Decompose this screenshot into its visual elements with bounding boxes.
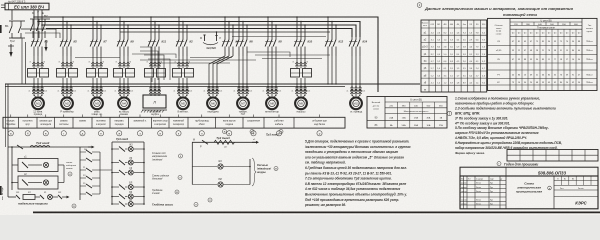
contactor К12 (327, 38, 329, 40)
wire: overload К11 to bus N (150, 78, 152, 84)
wire: mid link row (140, 59, 256, 61)
branch box 2 with lamp LK (18, 176, 58, 189)
wire: column К14 pass-through (351, 69, 353, 79)
circled ref p2 (208, 198, 212, 202)
selector contact row 1 (80, 151, 86, 153)
wire: overload К4 to bus N (208, 78, 210, 84)
wire: nested corner 4 (148, 59, 170, 80)
contactor К2 (178, 38, 180, 40)
wire: overload К12 to bus N (327, 78, 329, 84)
middle branch lamp К3 (112, 172, 119, 174)
wire: contactor К3 to overload (32, 62, 35, 66)
overload heater К7T (87, 69, 96, 78)
circled note 3 (447, 111, 451, 115)
wire: mid link row 4 (262, 58, 322, 60)
middle branch lamp Л3 (112, 162, 119, 164)
wire: mid tier B (232, 36, 326, 38)
wire: B1 bottom tie (12, 37, 21, 39)
wire: nested corner 2 (140, 51, 158, 80)
wire: contactor К12 to overload (327, 56, 329, 69)
wire: interlink d (247, 52, 290, 57)
title block name cell (505, 176, 507, 209)
bus N bottom second (5, 85, 345, 87)
wire: drops to contactor К6 (238, 17, 240, 38)
wire: contactor К11 to overload (149, 62, 152, 66)
middle branch lamp Ж3 (112, 148, 119, 150)
wire: interlink b (132, 54, 176, 58)
contactor К14 (351, 38, 353, 40)
wire: contactor К5 to overload (61, 62, 64, 66)
bus L2 (38, 22, 360, 38)
title block sheet row (554, 189, 598, 191)
electromagnet unit L (143, 95, 166, 108)
arrester arrow 2 (45, 40, 47, 50)
wire: control feed down left 2 (25, 42, 27, 84)
wire: overload К7 to bus N (92, 78, 94, 84)
wire: contactor К4 to overload (209, 56, 225, 69)
wire: overload К3 to bus N (33, 78, 35, 84)
wire: drops to contactor К14 (351, 37, 353, 38)
table: machine data left (421, 20, 487, 92)
contactor К3 (33, 38, 35, 40)
wire: box to switch B1 (11, 10, 13, 20)
wire: stepped feeder from switches (21, 29, 56, 38)
control rail top left ladder (8, 146, 92, 148)
right ladder top rail (192, 141, 257, 143)
plug connector column К14 (351, 84, 353, 96)
wire: interlink a (75, 57, 120, 59)
table: fuse ratings small (367, 97, 447, 129)
wire: contactor К2 to overload (177, 62, 180, 66)
margin text left edge (1, 186, 4, 200)
wire: boxes to collector (58, 164, 64, 166)
motor М2 (63, 95, 65, 98)
wire: contactor К7 to overload (91, 62, 94, 66)
circled note 2 (417, 3, 422, 8)
middle ladder right rail (143, 142, 145, 204)
motor М9 (297, 95, 299, 98)
bottom chain of lamps (8, 196, 16, 198)
title block outer (460, 176, 598, 209)
plug connector column К9 (119, 84, 121, 96)
wire: box drops M P E (33, 10, 35, 17)
wire: contactor К14 to overload (351, 56, 353, 69)
stamp note goden (497, 162, 501, 166)
right ladder left rail (191, 142, 193, 184)
selector ladder rail (79, 147, 81, 200)
overload heater К10T (291, 69, 300, 78)
switch B1 (9, 20, 25, 22)
bus L4 (46, 29, 352, 38)
motor М3 (93, 95, 95, 98)
wire: contactor К6 to overload (238, 56, 240, 69)
contactor К8 (267, 38, 269, 40)
selector contact row 2 (80, 159, 86, 161)
control rail left drop (7, 84, 9, 197)
feeder tap marks left of box (1, 4, 5, 6)
wire: column К4 pass-through (208, 69, 210, 79)
notes block center (304, 140, 411, 208)
wire: drops to contactor К11 (150, 17, 152, 38)
wire: drops to contactor К12 (327, 17, 329, 38)
wire: column К8 pass-through (267, 69, 269, 79)
wire: column К6 pass-through (238, 69, 240, 79)
brace and label raschnye shnury (252, 158, 256, 186)
contactor К10 (296, 38, 298, 40)
switch B2 (30, 18, 50, 20)
wire: overload К2 to bus N (178, 78, 180, 84)
wire: drops to contactor К9 (119, 17, 121, 38)
plug connector column К4 (208, 84, 210, 96)
wire: overload К8 to bus N (267, 78, 269, 84)
scan edge artifact left lower (0, 186, 2, 195)
wire: drops to contactor К10 (296, 17, 298, 38)
plug connector column К11 (150, 84, 152, 96)
plug connector column К10 (296, 84, 298, 96)
legend strip tick connectors (10, 115, 12, 118)
motor М7 (239, 95, 241, 98)
wire: drops to contactor К5 (62, 17, 64, 38)
overload heater К5T (57, 69, 66, 78)
contactor К11 (150, 38, 152, 40)
arrester arrow left (10, 44, 12, 56)
wire: nested corner 1 (140, 47, 152, 82)
wire: overload К5 to bus N (62, 78, 64, 84)
overload heater К11T (145, 69, 154, 78)
selector contact row 3 (80, 169, 86, 171)
contactor К4 (224, 38, 226, 40)
middle branch lamp Б3 (112, 196, 119, 198)
title block lit grid (553, 176, 555, 209)
wire: mid link row 2 (152, 62, 230, 64)
legend strip of function boxes (3, 117, 345, 128)
selector contact row 5 (80, 185, 86, 187)
plug connector column К7 (92, 84, 94, 96)
revision continuation table (507, 150, 598, 162)
overload heater К9T (114, 69, 123, 78)
wire: drops to contactor К4 (224, 17, 226, 38)
wire: overload К10 to bus N (296, 78, 298, 84)
arrow right on top rail (88, 146, 93, 148)
right branch lamp LM (192, 184, 217, 186)
contactor К6 (238, 38, 240, 40)
motor М10 (352, 95, 354, 98)
plug connector column К6 (238, 84, 240, 96)
contactor К7 (92, 38, 94, 40)
wire selector to mid (100, 169, 112, 171)
wire: interlink c (190, 57, 232, 59)
bus L3 (42, 25, 356, 37)
selector contact row 4 (80, 177, 86, 179)
wire: mid tier A (120, 31, 330, 33)
motor М5 (179, 95, 181, 98)
contact P on right ladder (202, 140, 208, 144)
plug connector column К2 (178, 84, 180, 96)
plug connector column К3 (33, 84, 35, 96)
wire: drops to contactor К7 (92, 17, 94, 38)
wire: contactor К10 to overload (295, 62, 298, 66)
contactor К5 (62, 38, 64, 40)
supply label box EC 380V (5, 3, 49, 10)
wire: contactor К8 to overload (267, 56, 269, 69)
wire: drops to contactor К3 (33, 17, 35, 38)
wire: mid link row 3 (255, 54, 330, 56)
plug connector column К5 (62, 84, 64, 96)
right branch lamp ZhZ (192, 166, 217, 168)
arrow right ladder (252, 141, 257, 143)
title block column grid left (463, 176, 465, 209)
wire: drops to contactor К8 (267, 17, 269, 38)
table: thermal relays right (488, 18, 598, 90)
plug connector column К8 (267, 84, 269, 96)
middle branch lamp Д5 (112, 203, 119, 205)
right ladder right rail (249, 159, 251, 185)
middle branch lamp БЛ (112, 186, 119, 188)
wire: column К12 pass-through (327, 69, 329, 79)
selector right rail (99, 152, 101, 194)
bus N bottom (5, 83, 420, 85)
wire: nested corner 3 (144, 55, 164, 80)
control rail left drop second (5, 84, 7, 147)
fuse contact on top rail (13, 146, 15, 148)
motor М1 (34, 95, 36, 98)
overload heater К2T (173, 69, 182, 78)
motor М8 (268, 95, 270, 98)
circled ref b2 (250, 130, 254, 134)
title block firm cell KERS (554, 196, 598, 198)
bus L1 (34, 17, 378, 92)
overload heater К3T (28, 69, 37, 78)
legend circled letters row (8, 131, 13, 136)
motor М6 (209, 95, 211, 98)
circled ref a2 (223, 130, 227, 134)
motor М4 (120, 95, 122, 98)
wire: overload К14 to bus N (351, 78, 353, 84)
notes block right (454, 97, 562, 155)
wire: drops to contactor К2 (178, 17, 180, 38)
scan edge artifact left upper (0, 25, 2, 33)
circled ref c2 (279, 130, 283, 134)
auxiliary tap M-L with bracket (204, 35, 206, 42)
selector contact row 6 (80, 193, 86, 195)
contactor К9 (119, 38, 121, 40)
left ladder rail (11, 147, 13, 190)
document number row (460, 167, 598, 176)
wire: overload К6 to bus N (238, 78, 240, 84)
drawing frame bottom edge (33, 211, 600, 213)
wire: control feed down left (21, 38, 23, 84)
middle ladder left rail (111, 142, 113, 204)
wire: overload К9 to bus N (119, 78, 121, 84)
wire: contactor К9 to overload (118, 62, 121, 66)
branch box 1 with lamp LZ (18, 159, 58, 172)
